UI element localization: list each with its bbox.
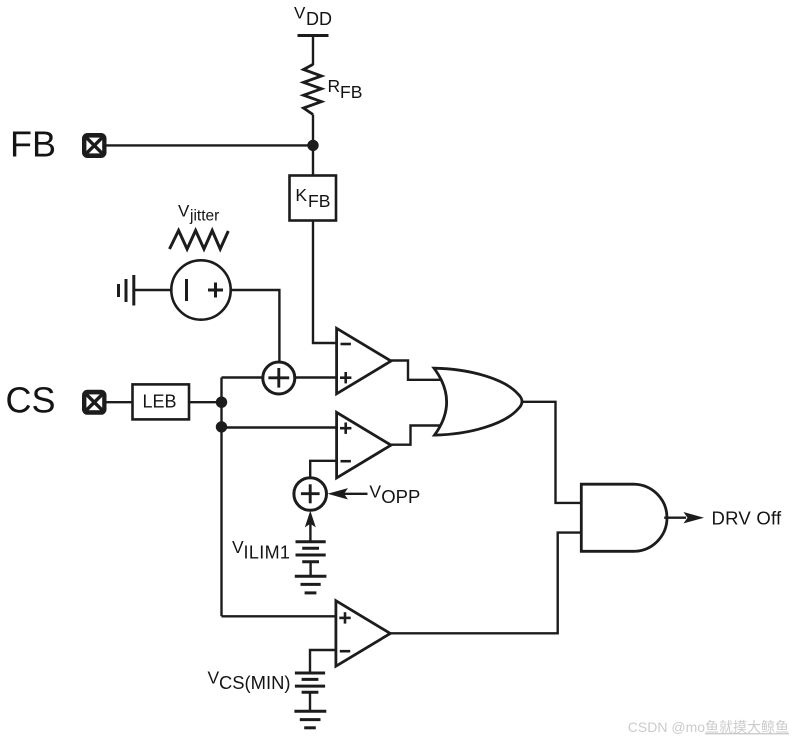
wire summing node S1 to comparator U1 plus input: [293, 376, 338, 378]
label DRV Off: [712, 508, 783, 529]
svg-text:DRV Off: DRV Off: [712, 508, 783, 529]
wire comparator U3 output to AND input B: [390, 533, 582, 634]
OR gate: [434, 368, 522, 435]
battery VILIM1: [296, 542, 326, 576]
svg-text:V: V: [232, 537, 244, 557]
label VCSMIN: [208, 667, 291, 693]
pin FB: [82, 133, 107, 158]
label VDD: [294, 4, 332, 29]
svg-text:FB: FB: [308, 191, 330, 211]
output arrow DRV Off: [664, 512, 704, 523]
label RFB: [328, 76, 363, 102]
svg-text:OPP: OPP: [381, 486, 420, 507]
block KFB: [290, 176, 337, 221]
comparator U2: [337, 412, 391, 478]
wire comparator U2 output to OR input B: [391, 426, 446, 445]
block LEB: [133, 384, 190, 419]
label VILIM1: [232, 537, 290, 563]
label Vjitter: [178, 202, 219, 225]
battery VCSMIN: [295, 673, 325, 711]
wire junction bus vertical: [220, 378, 222, 617]
wire CS pin to LEB: [105, 401, 133, 403]
voltage source Vjitter: [171, 260, 230, 319]
wire comparator U3 minus input to battery VCSMIN: [310, 650, 337, 673]
wire bus to summing node S1: [222, 376, 267, 378]
svg-text:LEB: LEB: [143, 392, 177, 412]
resistor RFB: [304, 64, 322, 114]
svg-text:ILIM1: ILIM1: [244, 542, 291, 562]
comparator U3: [336, 601, 390, 667]
node CS junction 1: [216, 397, 227, 408]
node FB junction: [307, 140, 318, 151]
AND gate: [581, 484, 667, 551]
svg-text:R: R: [328, 76, 341, 96]
svg-text:FB: FB: [340, 82, 362, 102]
arrow battery VILIM1 into summing node S2: [305, 511, 316, 542]
power rail VDD: [298, 36, 329, 66]
label CS: [6, 380, 56, 421]
watermark CSDN: [628, 719, 789, 735]
waveform jitter (triangle wave): [170, 231, 229, 250]
svg-text:DD: DD: [306, 9, 332, 29]
svg-text:CSDN @mo鱼就摸大鲸鱼: CSDN @mo鱼就摸大鲸鱼: [628, 719, 789, 735]
ground (below VCSMIN): [294, 711, 326, 728]
pin CS: [82, 390, 107, 415]
svg-text:V: V: [369, 481, 381, 501]
wire KFB to comparator U1 minus input: [313, 221, 338, 344]
svg-text:jitter: jitter: [189, 208, 219, 225]
svg-text:CS(MIN): CS(MIN): [219, 672, 291, 693]
svg-text:V: V: [208, 667, 220, 687]
ground (jitter source): [119, 275, 172, 306]
arrow VOPP into summing node S2: [328, 488, 368, 499]
wire comparator U1 output to OR input A: [391, 361, 446, 380]
comparator U1: [337, 328, 391, 394]
label FB: [10, 124, 56, 165]
wire bus to comparator U3 plus input: [222, 615, 338, 617]
wire FB pin to junction: [105, 144, 313, 146]
node CS junction 2: [216, 421, 227, 432]
summing node S2: [294, 478, 327, 511]
label VOPP: [369, 481, 420, 507]
svg-text:V: V: [178, 202, 190, 221]
svg-text:K: K: [295, 185, 307, 205]
wire LEB to junction: [189, 401, 222, 403]
svg-text:CS: CS: [6, 380, 56, 421]
wire OR output to AND input A: [522, 402, 582, 503]
summing node S1: [263, 362, 295, 394]
wire bus to comparator U2 plus input: [222, 426, 338, 428]
wire summing node S2 to comparator U2 minus input: [310, 461, 337, 480]
svg-text:V: V: [294, 4, 306, 23]
svg-text:FB: FB: [10, 124, 56, 165]
wire source to summing node S1: [231, 290, 279, 364]
wire resistor to KFB: [312, 115, 314, 177]
ground (below VILIM1): [295, 576, 327, 593]
